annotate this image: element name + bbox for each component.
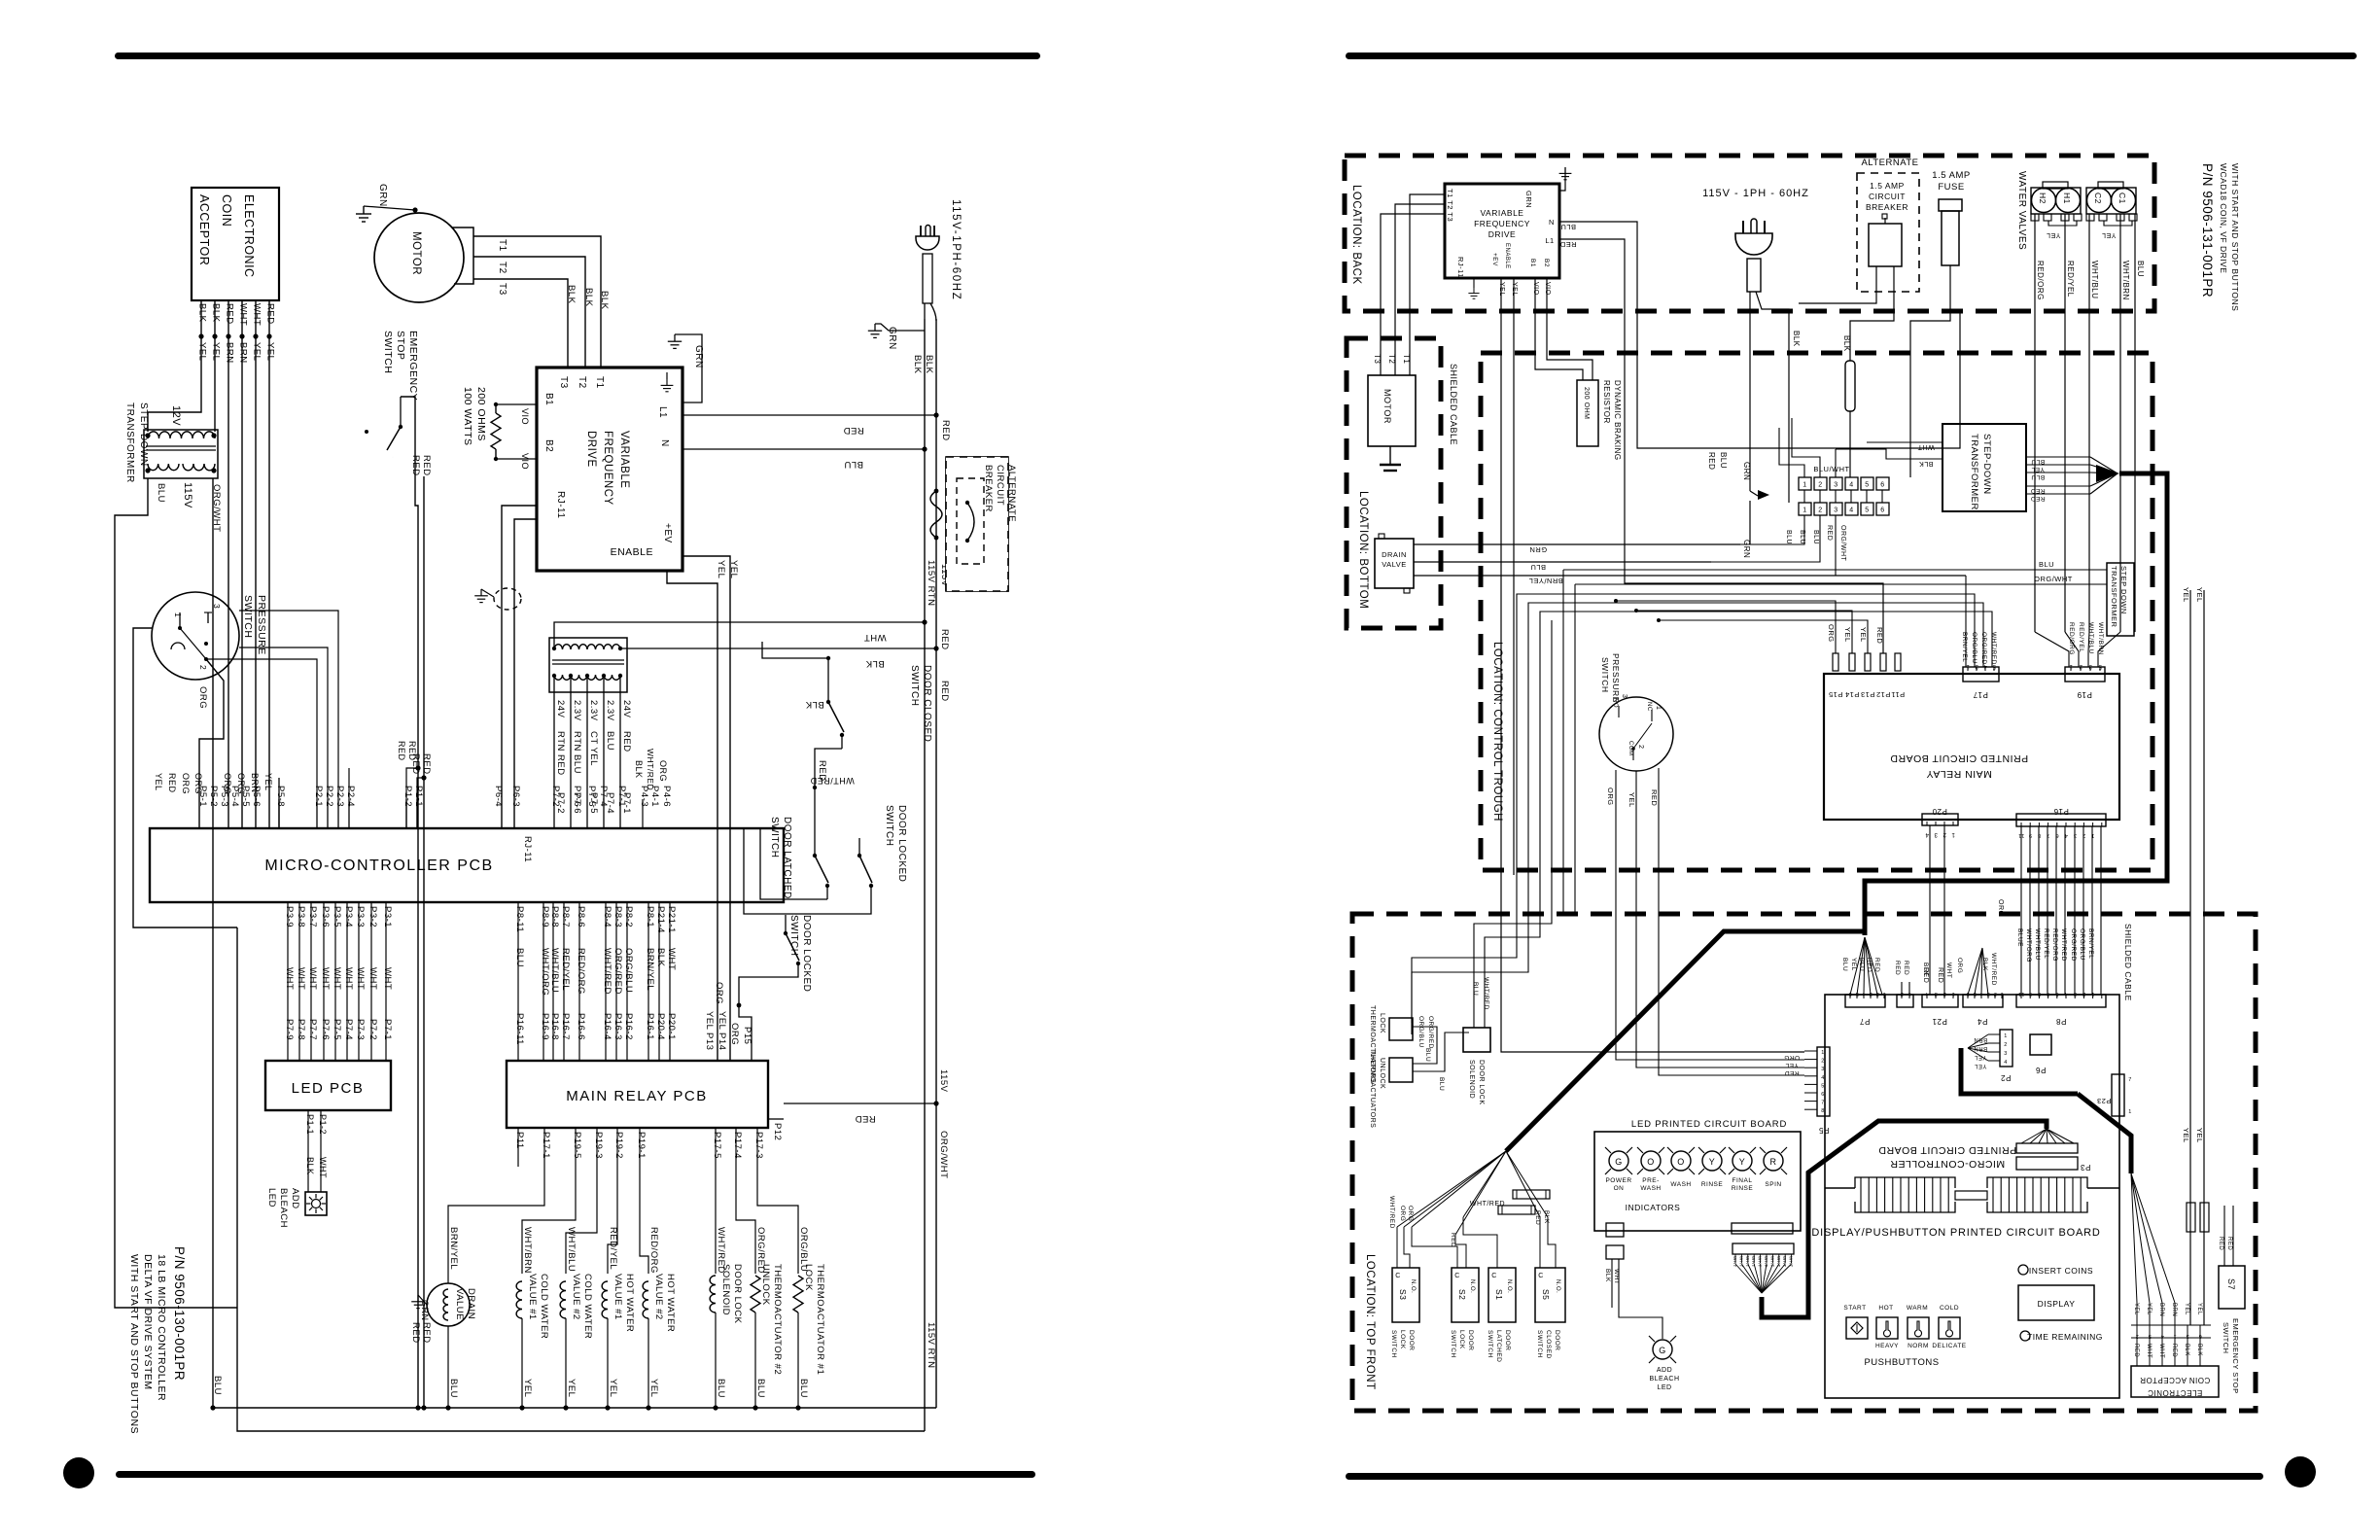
coin acceptor pin rails [2131,1324,2211,1326]
breaker wires [1799,266,1876,303]
ground at drain valve [411,1295,425,1309]
svg-text:MICRO-CONTROLLER PCB: MICRO-CONTROLLER PCB [264,857,493,874]
svg-text:YEL: YEL [717,1011,727,1030]
svg-text:1: 1 [1951,831,1955,837]
svg-text:4: 4 [2064,991,2068,997]
svg-text:G: G [1615,1157,1623,1167]
svg-text:1: 1 [1951,991,1955,997]
svg-text:BLU: BLU [156,483,166,503]
svg-text:VIO: VIO [1544,282,1551,296]
shielded cable convergence arrow [2090,457,2117,473]
svg-text:LOCATION: BACK: LOCATION: BACK [1350,185,1362,285]
svg-text:ELECTRONIC: ELECTRONIC [242,194,256,278]
svg-text:ORG/BLU: ORG/BLU [623,948,634,993]
svg-text:EMERGENCY STOP: EMERGENCY STOP [2231,1318,2240,1394]
svg-text:CLOSED: CLOSED [1545,1330,1552,1359]
svg-text:VARIABLE: VARIABLE [618,431,630,488]
svg-text:BLU: BLU [844,459,863,470]
svg-text:BLU: BLU [1719,452,1728,469]
svg-text:VALUE #1: VALUE #1 [527,1274,538,1320]
emergency stop switch S7 [2219,1266,2245,1309]
ferrite on RJ-11 cable [494,588,521,610]
svg-text:3: 3 [212,604,222,609]
P23 connector [2112,1074,2124,1116]
svg-text:P3-1: P3-1 [382,906,393,927]
thermoactuator wires [1413,1027,1437,1064]
svg-text:ORG/BLU: ORG/BLU [1417,1016,1424,1048]
svg-text:PRE-: PRE- [1642,1177,1660,1184]
svg-text:6: 6 [1880,482,1884,489]
svg-text:HOT WATER: HOT WATER [665,1274,676,1332]
svg-text:P16-7: P16-7 [560,1013,571,1040]
svg-text:WHT: WHT [1945,962,1952,978]
svg-text:ORG: ORG [1997,899,2004,916]
svg-text:RED/YEL: RED/YEL [2043,928,2049,959]
svg-text:ADD: ADD [1657,1367,1672,1374]
svg-text:C: C [1454,1273,1460,1279]
card edge comb left [1855,1177,1955,1212]
svg-text:RED: RED [1784,1069,1799,1076]
svg-text:11: 11 [2018,991,2025,997]
svg-text:RED/ORG: RED/ORG [648,1227,659,1274]
svg-text:18 LB MICRO CONTROLLER: 18 LB MICRO CONTROLLER [156,1254,167,1401]
svg-text:2: 2 [1821,1059,1825,1065]
svg-text:L1: L1 [657,406,668,418]
svg-text:RED: RED [621,731,632,752]
svg-text:SWITCH: SWITCH [1390,1330,1397,1358]
svg-text:RED: RED [2030,495,2045,502]
svg-text:BLU: BLU [2136,261,2145,277]
transformer output wires to shielded bundle [2026,456,2090,458]
svg-text:P16-2: P16-2 [623,1013,634,1040]
door lock solenoid coil [710,1276,716,1312]
svg-text:G: G [1659,1346,1666,1355]
step-down transformer box right page [1942,424,2026,511]
svg-text:ORG: ORG [714,982,724,1004]
svg-text:ENABLE: ENABLE [611,546,653,558]
door lock solenoid right page [1463,1028,1490,1052]
svg-text:BLU: BLU [2039,560,2054,569]
svg-text:RJ-11: RJ-11 [522,836,533,862]
bottom return rail [213,1407,936,1409]
svg-text:P5-8: P5-8 [275,786,286,807]
svg-text:BLK: BLK [2184,1344,2189,1356]
svg-text:GRN: GRN [887,327,897,350]
led board bottom connector [1732,1223,1793,1234]
svg-text:LOCK: LOCK [803,1264,814,1291]
svg-text:B2: B2 [543,439,554,452]
svg-text:RED: RED [410,1322,421,1344]
BLU ORG/WHT horizontal wires [1563,569,2107,571]
svg-text:WHT: WHT [320,967,331,990]
svg-text:7: 7 [2047,991,2050,997]
svg-text:BLK: BLK [211,303,222,323]
svg-text:5: 5 [1865,482,1869,489]
svg-text:P2-4: P2-4 [345,786,356,807]
svg-text:7: 7 [1821,1101,1825,1106]
svg-text:RED: RED [2133,1344,2139,1357]
drain valve box right page [1375,539,1414,588]
svg-text:WHT/RED: WHT/RED [1470,1201,1505,1207]
connector 2pin [1897,995,1913,1007]
svg-text:UNLOCK: UNLOCK [1379,1058,1385,1089]
thick cable branch to door switch fan [1506,931,1865,1151]
svg-text:SWITCH: SWITCH [382,331,394,373]
svg-text:RED: RED [2171,1344,2177,1357]
svg-text:DOOR CLOSED: DOOR CLOSED [922,665,932,742]
svg-text:CIRCUIT: CIRCUIT [1869,192,1906,201]
svg-text:H2: H2 [2038,192,2047,204]
door switch S2 [1452,1268,1479,1322]
ground at RJ-11 cable [474,589,488,603]
svg-text:BRN/YEL: BRN/YEL [645,948,655,991]
svg-text:ORG/WHT: ORG/WHT [1839,525,1846,562]
svg-text:T3: T3 [497,283,507,296]
wire transformer 24V primary to WHT line [554,622,925,648]
svg-text:WHT: WHT [1776,1256,1781,1268]
svg-text:6: 6 [2055,991,2059,997]
electronic coin acceptor box [192,188,279,300]
svg-text:RED: RED [939,629,950,650]
svg-text:4: 4 [1925,991,1929,997]
power plug 115V [916,236,939,250]
page bottom bar left [116,1471,1035,1478]
svg-text:YEL: YEL [1850,958,1857,971]
svg-text:P20-1: P20-1 [666,1013,677,1040]
drive output N wire [682,448,925,450]
svg-text:4: 4 [1821,1075,1825,1081]
svg-text:SWITCH: SWITCH [909,665,920,706]
svg-text:PRINTED CIRCUIT BOARD: PRINTED CIRCUIT BOARD [1890,752,2028,764]
svg-text:P6: P6 [2036,1066,2047,1074]
svg-text:200 OHM: 200 OHM [1583,387,1590,419]
motor wire T2 [473,257,585,367]
svg-text:RED: RED [939,681,950,702]
svg-text:COLD: COLD [1940,1305,1959,1312]
thermoactuators lock [1389,1018,1413,1040]
svg-text:MAIN RELAY: MAIN RELAY [1926,768,1992,780]
svg-text:RED/ORG: RED/ORG [576,948,586,995]
svg-text:P3-6: P3-6 [320,906,331,927]
svg-text:WHT/RED: WHT/RED [602,948,612,995]
variable frequency drive box right page [1445,184,1559,278]
svg-text:YEL: YEL [1974,1063,1986,1068]
svg-text:P7-4: P7-4 [343,1019,354,1040]
svg-text:ORG/WHT: ORG/WHT [2034,575,2073,583]
micro-controller pcb box [150,828,784,902]
wires BLK WHT to add bleach led [1611,1259,1613,1308]
svg-text:YEL: YEL [648,1379,659,1397]
svg-text:RED/ORG: RED/ORG [2068,622,2075,655]
power plug right page [1735,233,1772,255]
svg-text:8: 8 [2038,991,2042,997]
svg-text:RED: RED [410,455,421,476]
svg-text:WHT: WHT [666,948,677,970]
svg-text:P16-3: P16-3 [612,1013,623,1040]
svg-text:P20-4: P20-4 [655,1013,666,1040]
svg-text:YEL: YEL [2031,466,2045,472]
svg-text:SHIELDED CABLE: SHIELDED CABLE [1449,364,1458,445]
svg-text:P17-3: P17-3 [753,1132,764,1159]
svg-text:MAIN RELAY PCB: MAIN RELAY PCB [566,1088,707,1104]
cold water valve 2 coil [560,1281,566,1318]
svg-text:9: 9 [2028,991,2032,997]
svg-text:P5: P5 [1819,1126,1830,1135]
svg-text:WATER VALVES: WATER VALVES [2016,171,2027,250]
svg-text:+EV: +EV [1491,253,1498,266]
hot water valve 1 coil [602,1281,608,1318]
wire pressure switch to left rail [133,628,237,927]
svg-text:CT YEL: CT YEL [588,731,599,766]
svg-text:1: 1 [2091,832,2095,838]
fan into P3 [2021,1129,2047,1143]
svg-text:5: 5 [1865,507,1869,514]
svg-text:VIO: VIO [520,408,530,425]
svg-text:P15: P15 [1829,690,1843,699]
svg-text:P8-4: P8-4 [602,906,612,927]
svg-text:LOCATION: BOTTOM: LOCATION: BOTTOM [1357,491,1369,609]
svg-text:P7-6: P7-6 [572,786,582,807]
svg-text:ADD: ADD [290,1188,300,1209]
svg-text:COIN: COIN [220,194,233,227]
svg-text:P1-1: P1-1 [305,1114,315,1135]
svg-text:100 WATTS: 100 WATTS [462,387,473,446]
svg-text:WHT: WHT [1917,443,1935,450]
door locked switch 2 [784,931,787,935]
svg-text:SWITCH: SWITCH [1487,1330,1493,1358]
svg-text:RESISTOR: RESISTOR [1602,380,1611,424]
thermoactuator 2 unlock resistor [751,1276,760,1312]
svg-text:WARM: WARM [1907,1305,1928,1312]
svg-text:ORG/RED: ORG/RED [1427,1016,1434,1049]
svg-text:3: 3 [1821,1067,1825,1072]
main relay top stubs P15-P11 [1833,653,1838,671]
svg-text:TIME REMAINING: TIME REMAINING [2027,1332,2103,1342]
svg-text:YEL: YEL [704,1011,715,1030]
svg-text:BLK: BLK [1792,331,1801,347]
svg-text:2: 2 [1942,991,1946,997]
led indicators [1609,1151,1628,1171]
plug wires down [1749,292,1751,491]
drive +EV ENABLE wires YEL YEL down [1501,278,1804,1052]
svg-text:LOCATION: TOP FRONT: LOCATION: TOP FRONT [1364,1254,1376,1390]
svg-text:P7-5: P7-5 [586,786,597,807]
svg-text:RED: RED [2030,487,2045,494]
svg-text:DYNAMIC BRAKING: DYNAMIC BRAKING [1613,380,1622,461]
svg-text:SHIELDED CABLE: SHIELDED CABLE [2123,924,2133,1001]
svg-text:DISPLAY: DISPLAY [2038,1299,2076,1309]
svg-text:BLU: BLU [1812,530,1819,544]
location back dashed box [1345,156,2154,311]
svg-text:RED/ORG: RED/ORG [2036,261,2045,300]
svg-text:ORG: ORG [181,773,191,794]
ground at drive top right [668,334,682,348]
svg-text:P23: P23 [2097,1097,2112,1105]
svg-text:BRN: BRN [250,773,260,793]
svg-text:P7-2: P7-2 [367,1019,378,1040]
P20 connector [1922,814,1958,825]
svg-text:DELICATE: DELICATE [1932,1343,1966,1349]
svg-text:RED: RED [1937,967,1943,983]
svg-text:PRESSURE: PRESSURE [1611,653,1621,703]
svg-text:STEP-DOWN: STEP-DOWN [138,402,149,467]
svg-text:VALUE: VALUE [454,1288,465,1320]
svg-text:BLU/WHT: BLU/WHT [1813,465,1849,473]
svg-text:BRN/YEL: BRN/YEL [1961,632,1968,662]
svg-text:H1: H1 [2062,192,2072,204]
svg-text:24V: 24V [621,700,632,718]
svg-text:P11: P11 [1891,690,1905,699]
svg-text:WHT: WHT [355,967,366,990]
svg-text:SPIN: SPIN [1765,1181,1781,1188]
svg-text:BLK: BLK [583,288,594,307]
drive +EV / ENABLE wires YEL YEL [667,571,717,1061]
svg-text:ORG/BLU: ORG/BLU [1971,632,1977,664]
wire transformer 24V primary right to BLK line [620,647,936,649]
svg-text:BLK: BLK [865,658,885,669]
svg-text:P3: P3 [2081,1163,2091,1172]
svg-text:GRN: GRN [420,1300,430,1321]
main relay bottom pins [517,1128,519,1152]
svg-text:RED/ORG: RED/ORG [2051,928,2058,962]
svg-text:RED: RED [1894,961,1901,975]
P19 connector [2065,667,2105,682]
svg-text:P7: P7 [1860,1017,1871,1026]
coin acceptor wires to micro-controller P5 [200,300,202,336]
svg-text:P7-2: P7-2 [550,786,561,807]
svg-text:RJ-11: RJ-11 [1456,257,1465,278]
svg-text:O: O [1647,1157,1655,1167]
svg-text:P8-6: P8-6 [576,906,586,927]
svg-text:P13: P13 [1861,690,1875,699]
water valve wires down [2034,214,2036,632]
svg-text:P3-7: P3-7 [307,906,318,927]
svg-text:5: 5 [1821,1083,1825,1089]
svg-text:RED: RED [225,303,235,325]
wires main relay to bottom components [517,1152,519,1167]
svg-text:T2: T2 [577,376,587,389]
svg-text:2: 2 [1818,482,1822,489]
svg-text:RED/YEL: RED/YEL [560,948,571,991]
svg-text:BLEACH: BLEACH [278,1188,289,1228]
ground at motor [356,206,371,222]
svg-text:ORG/BLU: ORG/BLU [2079,928,2085,961]
svg-text:7: 7 [2128,1077,2132,1083]
time remaining lamp [2020,1331,2030,1341]
svg-text:N.O.: N.O. [1555,1279,1560,1293]
comb connecting trace [1955,1191,1987,1200]
svg-text:PUSHBUTTONS: PUSHBUTTONS [1864,1357,1939,1368]
svg-text:P1-1: P1-1 [413,786,424,807]
svg-text:6: 6 [1821,1092,1825,1098]
svg-text:STEP-DOWN: STEP-DOWN [1981,434,1992,495]
svg-text:BRN: BRN [225,342,235,364]
braking resistor 200 OHMS 100 WATTS [491,413,501,449]
motor [374,213,464,302]
svg-text:8: 8 [1821,1108,1825,1114]
svg-text:MOTOR: MOTOR [410,231,422,275]
svg-text:1.5 AMP: 1.5 AMP [1870,181,1905,191]
svg-text:WHT/BLU: WHT/BLU [2034,928,2041,961]
svg-text:YEL: YEL [197,342,208,361]
svg-text:4: 4 [1925,831,1929,837]
svg-text:WHT: WHT [252,303,262,326]
svg-text:P4: P4 [1977,1017,1988,1026]
svg-text:POWER: POWER [1605,1177,1631,1184]
svg-text:P19-5: P19-5 [572,1132,582,1159]
svg-text:NC: NC [1646,702,1652,712]
svg-text:B1: B1 [543,393,554,405]
svg-text:C1: C1 [2117,192,2127,204]
drain valve wires GRN BLU BRNYEL [1414,543,1740,545]
svg-text:CIRCUIT: CIRCUIT [995,465,1005,506]
svg-text:SWITCH: SWITCH [1450,1330,1456,1358]
P6 chip [2030,1034,2051,1055]
svg-text:WHT: WHT [296,967,306,990]
svg-text:BLK: BLK [305,1157,315,1175]
svg-text:P19-3: P19-3 [593,1132,604,1159]
svg-text:SWITCH: SWITCH [884,805,894,846]
svg-text:ORG: ORG [1956,958,1963,973]
svg-text:3: 3 [1934,831,1938,837]
wire pressure switch ORG down [199,659,224,828]
svg-text:WHT/BLU: WHT/BLU [2087,622,2094,654]
svg-text:RED: RED [940,420,951,441]
svg-text:12V: 12V [170,405,182,426]
pressure switch right page [1599,697,1673,771]
svg-text:BLU: BLU [514,948,525,967]
svg-text:1: 1 [2004,1033,2008,1039]
svg-text:ON: ON [1614,1185,1625,1192]
svg-text:FREQUENCY: FREQUENCY [602,431,613,506]
svg-text:7: 7 [2047,832,2050,838]
svg-text:DELTA VF DRIVE SYSTEM: DELTA VF DRIVE SYSTEM [142,1254,154,1390]
svg-text:SOLENOID: SOLENOID [1468,1060,1475,1099]
svg-text:LED PRINTED CIRCUIT BOARD: LED PRINTED CIRCUIT BOARD [1631,1119,1787,1130]
svg-text:YEL: YEL [716,560,726,578]
inline connectors on switch wires [1513,1190,1550,1199]
P2 connector [2000,1030,2012,1067]
svg-text:1: 1 [2000,991,2004,997]
svg-text:RED: RED [407,741,417,761]
svg-text:RTN RED: RTN RED [555,731,566,776]
svg-text:LOCK: LOCK [1458,1330,1465,1349]
svg-text:ORG/WHT: ORG/WHT [938,1131,949,1178]
svg-text:P8-9: P8-9 [540,906,550,927]
svg-text:YEL: YEL [1859,627,1868,643]
ground near plug [868,324,882,337]
svg-text:SOLENOID: SOLENOID [720,1264,731,1315]
svg-text:2: 2 [2079,663,2082,669]
svg-text:GRN: GRN [1524,191,1533,208]
svg-text:WHT/BRN: WHT/BRN [2097,622,2104,655]
svg-text:ORG: ORG [1784,1054,1800,1061]
svg-text:2.3V: 2.3V [572,700,582,721]
svg-text:BLU: BLU [1560,223,1576,231]
svg-text:WHT: WHT [367,967,378,990]
svg-text:BLU: BLU [448,1379,459,1398]
svg-text:THERMOACTUATORS: THERMOACTUATORS [1369,1050,1376,1128]
svg-text:YEL: YEL [2047,231,2061,238]
svg-text:YEL: YEL [154,773,163,791]
svg-text:HOT WATER: HOT WATER [624,1274,635,1332]
display box [2018,1285,2094,1320]
svg-text:HEAVY: HEAVY [1875,1343,1899,1349]
svg-text:P8-2: P8-2 [623,906,634,927]
svg-text:P17: P17 [1973,690,1988,699]
svg-text:BREAKER: BREAKER [1866,202,1908,212]
svg-text:DOOR: DOOR [1408,1330,1415,1351]
